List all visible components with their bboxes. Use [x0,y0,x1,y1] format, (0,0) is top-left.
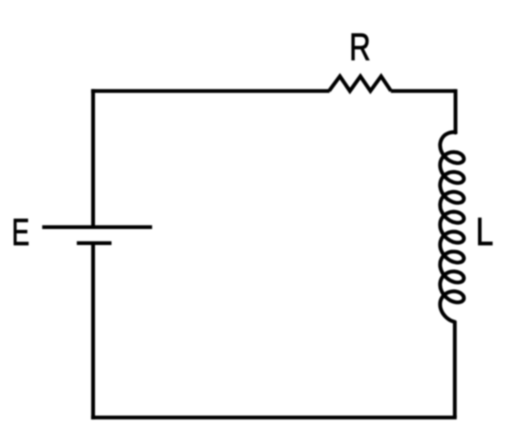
wire: left side, battery - plate down to bottom-left corner [91,243,95,419]
battery E: long plate (+) [42,225,152,229]
inductor L (coil) [440,132,464,322]
battery E: short plate (-) [77,241,112,245]
label E [14,219,28,245]
resistor R (zigzag) [329,76,391,91]
wire: right side, corner down to inductor top [454,89,458,134]
wire: right side, inductor bottom to bottom-right corner [453,321,457,418]
wire: left side, top-left corner down to battery + plate [91,89,95,226]
wire: bottom rail [91,416,457,420]
label L [478,218,492,245]
wire: top rail, resistor to top-right corner [391,89,456,93]
wire: top rail, battery to resistor [91,89,329,93]
label R [352,34,370,60]
